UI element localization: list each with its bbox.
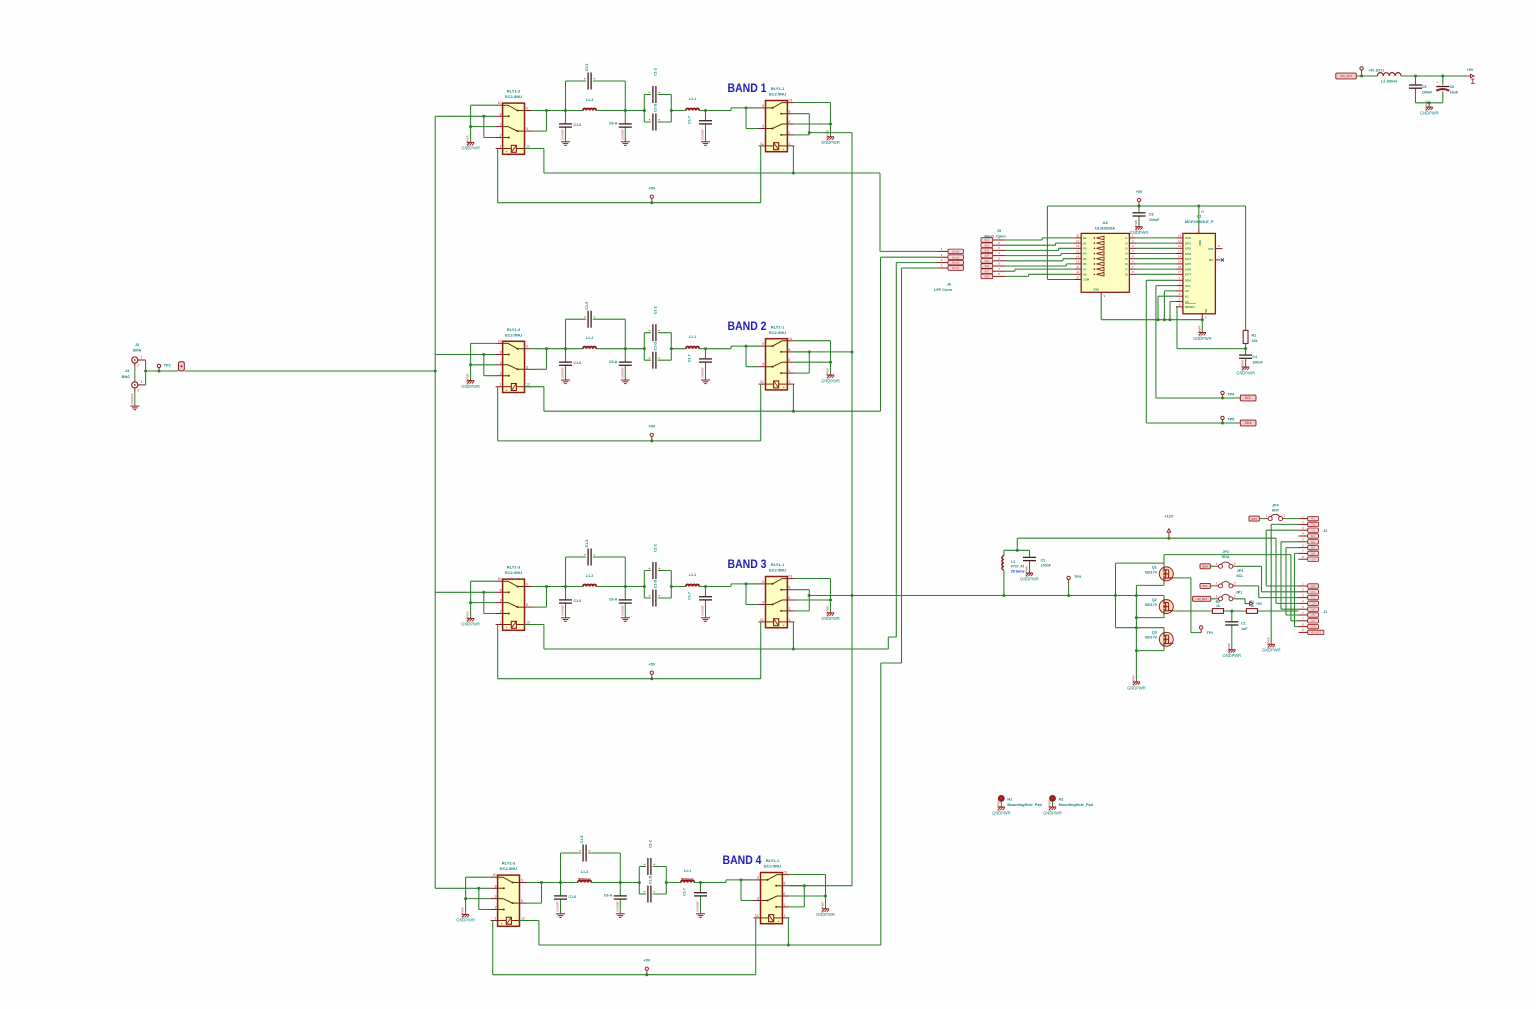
wire: input to relay pins 8/2 and 10/3 to GNDPWR [452,105,496,141]
svg-text:16: 16 [1076,244,1080,248]
ground GNDPWR (C4) [1236,360,1255,375]
svg-text:+5V_EXT: +5V_EXT [1340,74,1353,78]
ground GNDREF (C6-A) [621,129,630,146]
transistor Q1 BS170 [1159,566,1173,581]
test point TP3 [1067,576,1070,583]
band row 3 (RLY3-3 / RLY3-1 filter) [452,540,870,681]
svg-text:GND: GND [1310,626,1316,629]
wire: +5V top rail [1047,206,1245,330]
connector J2 [1299,518,1308,520]
svg-text:Q3: Q3 [1152,631,1157,635]
svg-text:GND: GND [1310,608,1316,611]
svg-text:C2: C2 [1041,558,1046,562]
label SDA (JP2 input) [1200,564,1210,569]
svg-text:C5: C5 [1422,85,1427,89]
power +5V (logic) [1137,198,1140,206]
ground GNDPWR (right relay) [821,130,840,145]
svg-text:SCL: SCL [1202,584,1208,588]
label +5V_EXT (JP1 input) [1193,596,1211,601]
svg-text:H1: H1 [1007,797,1012,801]
svg-text:GP6: GP6 [1185,267,1191,271]
capacitor C2 100nF [1017,550,1029,571]
svg-text:SMA: SMA [133,348,142,353]
svg-text:O6: O6 [1083,262,1087,266]
svg-text:+12V: +12V [1164,515,1173,519]
mounting hole H1 [998,795,1005,802]
svg-text:O2: O2 [1083,241,1087,245]
svg-text:+5V_EXT: +5V_EXT [1311,632,1322,635]
svg-text:+5V: +5V [1311,614,1316,617]
svg-text:GP2: GP2 [1185,247,1191,251]
capacitor C5 100nF [1415,76,1417,103]
svg-text:ANT: ANT [1251,517,1257,521]
svg-text:+5V: +5V [1256,602,1263,606]
svg-text:14: 14 [1178,255,1182,259]
svg-text:+5V: +5V [1467,68,1474,72]
svg-text:INT: INT [1209,247,1214,251]
wire: SCL net to label [1156,286,1240,398]
svg-text:+5V: +5V [648,187,655,191]
wire: band output bus [851,133,853,886]
connector J1 [1299,585,1308,587]
svg-text:R1: R1 [1252,333,1257,337]
svg-text:SCL: SCL [1185,284,1191,288]
svg-text:GP1: GP1 [1185,241,1191,245]
svg-text:SDA: SDA [1245,421,1253,425]
svg-text:O8: O8 [1083,273,1087,277]
svg-text:VDD: VDD [1198,240,1202,246]
svg-text:Bd5: Bd5 [985,260,990,263]
svg-text:TP3: TP3 [1074,575,1081,579]
svg-text:BAND 2: BAND 2 [728,319,767,333]
svg-text:U4: U4 [1102,220,1108,225]
svg-text:O3: O3 [1083,247,1087,251]
power +5V (band coil supply) [650,195,653,203]
jumper JP2 SDA [1215,562,1236,568]
svg-text:J2: J2 [1323,529,1327,533]
svg-text:TP1: TP1 [1206,631,1213,635]
wire: BNC ground to GNDREF [134,388,136,392]
capacitor C4 100nF [1239,355,1252,358]
wire: ULN COM to +5V rail [1047,206,1074,280]
ground GNDPWR (C1) [1222,643,1241,658]
svg-text:A0: A0 [1185,300,1189,304]
wire: relay throws 9/5 tie to filter input [532,111,566,132]
ground GNDPWR (H2) [1043,800,1062,815]
svg-text:BAND 3: BAND 3 [728,557,767,571]
svg-text:TP2: TP2 [164,364,171,368]
inductor L1-1 [686,108,699,110]
ground GNDPWR (left relay) [461,135,480,150]
svg-text:C4: C4 [1252,355,1257,359]
svg-text:Bd2: Bd2 [1311,541,1316,544]
svg-text:ANT: ANT [1311,518,1316,521]
svg-text:+12V: +12V [1310,558,1316,561]
wire: J5 to ULN2803 outputs (staircase) [1005,238,1074,277]
svg-text:VSS: VSS [1204,309,1208,315]
ground GNDREF (C1-7) [701,129,710,146]
wire: Q1 gate to TP1 [1173,578,1201,633]
label SCL [1240,395,1256,401]
svg-text:A2: A2 [1185,289,1189,293]
svg-text:JP2: JP2 [1222,550,1228,554]
svg-text:Bd3: Bd3 [1311,547,1316,550]
svg-text:O5: O5 [1083,257,1087,261]
svg-text:BAND 4: BAND 4 [723,853,762,867]
band row 4 (RLY4-3 / RLY4-1 filter) [447,836,865,977]
test point TP1 [1199,626,1202,633]
wire: input net to bus [146,360,436,385]
label SCL (JP3 input) [1200,583,1210,588]
svg-text:RESET: RESET [1185,305,1195,309]
svg-text:100nF: 100nF [1041,563,1052,567]
svg-text:Bd6: Bd6 [985,265,990,268]
connector J4 BNC [132,382,138,388]
svg-text:+5V_EXT1: +5V_EXT1 [1369,69,1385,73]
svg-text:GP7: GP7 [1185,273,1191,277]
svg-text:GND: GND [1093,288,1099,292]
svg-text:GND: GND [1310,524,1316,527]
svg-text:15: 15 [1178,260,1182,264]
svg-text:C6-A: C6-A [609,122,618,126]
svg-text:18: 18 [1201,209,1205,213]
mounting hole H2 [1049,795,1056,802]
net tie / ferrite bead (input) [179,362,185,371]
wire: MCP VSS to ground [1201,319,1203,331]
wire: FET switch network [1116,555,1165,681]
wire: bus stubs into band rows [435,116,452,888]
wire: C5/C6 ground rail [1416,103,1443,106]
wire: ULN outputs to MCP GP pins [1136,238,1176,274]
relay RLY1-1 (right, EC2-5NU, mirrored) [759,99,795,152]
transistor Q3 BS170 [1159,632,1173,647]
svg-text:ANT: ANT [1311,620,1316,623]
svg-text:Bd1: Bd1 [1311,535,1316,538]
capacitor C1 1nF [1231,611,1233,648]
resistor R1 10k [1243,330,1248,343]
svg-text:EC2-5NU: EC2-5NU [505,94,522,99]
svg-text:ANT: ANT [1272,509,1280,513]
ground GNDPWR (FET source) [1127,675,1146,690]
svg-text:GP0: GP0 [1185,236,1191,240]
svg-text:C6: C6 [1450,85,1455,89]
wire: SDA net to label [1146,280,1240,423]
svg-text:L1-2: L1-2 [586,98,593,102]
svg-text:10uF: 10uF [1450,90,1459,94]
ground GNDPWR (power input) [1420,100,1439,115]
wire: gate resistor row [1173,610,1298,612]
svg-text:Bd4: Bd4 [985,255,990,258]
wire: relay coil rail A [525,146,871,173]
IC U4 ULN2803A [1081,233,1129,292]
svg-text:12: 12 [1178,244,1182,248]
wire: ULN GND to ground line [1101,298,1202,320]
ground GNDREF (input) [130,393,139,410]
band row 2 (RLY2-3 / RLY2-1 filter) [452,302,870,443]
jumper JP1 [1215,594,1236,600]
label +5V_EXT (power input) [1336,73,1357,79]
svg-text:JP1: JP1 [1236,591,1242,595]
svg-text:TP5: TP5 [1227,418,1234,422]
transistor Q2 BS170 [1159,599,1173,614]
svg-text:RLY1-1: RLY1-1 [771,86,785,91]
svg-text:12: 12 [1076,265,1080,269]
inductor L1-2 [566,110,626,112]
test point TP5 [1221,416,1224,423]
svg-text:500kHz: 500kHz [578,878,591,882]
svg-text:10k: 10k [1252,339,1258,343]
svg-text:GND: GND [1310,585,1316,588]
capacitor C1-6 (shunt) [565,111,567,141]
svg-text:SDA: SDA [1222,555,1230,559]
power +12V [1167,529,1171,539]
capacitor C1-5 (top bypass) [566,81,626,111]
svg-text:GP3: GP3 [1185,252,1191,256]
wire: band1 control to J6 [870,173,937,251]
svg-text:RLY1-3: RLY1-3 [507,89,521,94]
svg-text:SCL: SCL [1311,597,1316,600]
capacitor C1-7 (shunt) [705,111,707,141]
wire: A2/A1/A0 to ground line [1158,291,1176,320]
svg-text:BS170: BS170 [1145,636,1157,640]
ground GNDPWR (MCP VSS) [1193,325,1212,340]
capacitor C1-2 / C1-D parallel pair [625,95,686,123]
wire: band2 control to J6 [870,257,937,411]
svg-text:O1: O1 [1083,236,1087,240]
ground GNDREF (C1-6) [561,129,570,146]
svg-text:16: 16 [1178,265,1182,269]
connector J5 Band_Conn [981,238,993,243]
svg-text:Bd1: Bd1 [985,239,990,242]
svg-text:JP3: JP3 [1237,569,1243,573]
svg-text:TP4: TP4 [1227,393,1235,397]
ground GNDPWR (harness) [1262,637,1281,652]
svg-text:Bd7: Bd7 [985,270,990,273]
svg-text:JP4: JP4 [1272,503,1278,507]
label SDA [1240,420,1256,426]
wire: band4 output row [789,885,852,887]
svg-text:Band2: Band2 [952,262,960,265]
svg-text:SDA: SDA [1311,591,1316,594]
svg-text:C1-5: C1-5 [585,64,589,72]
ground GNDPWR (H1) [992,800,1011,815]
svg-text:O7: O7 [1083,267,1087,271]
svg-text:Band3: Band3 [952,256,960,259]
svg-text:A1: A1 [1185,295,1189,299]
svg-text:+: + [1436,80,1438,84]
wire: band3 control to J6 [870,263,937,649]
svg-text:10: 10 [1178,234,1182,238]
wire: Q1 drain rail [1164,554,1291,556]
svg-text:11: 11 [1076,270,1079,274]
svg-text:18: 18 [1076,234,1080,238]
svg-text:MountingHole_Pad: MountingHole_Pad [1007,803,1042,807]
wire: +12V rail [1017,538,1276,550]
wire: main input bus (vertical) [434,116,436,888]
connector J6 LPF Conn [937,250,948,252]
svg-text:+12V: +12V [1310,603,1316,606]
power +5V (output arrow) [1466,75,1471,77]
svg-text:Q1: Q1 [1152,565,1157,569]
jumper JP4 ANT [1265,514,1286,520]
svg-text:1nF: 1nF [1241,627,1248,631]
svg-text:GP4: GP4 [1185,257,1191,261]
wire: relay coil +5V rail B [498,146,761,203]
svg-text:J1: J1 [1323,610,1327,614]
svg-text:EC2-5NU: EC2-5NU [769,92,786,97]
svg-text:1: 1 [141,355,143,359]
svg-text:H2: H2 [1059,797,1064,801]
svg-text:C1-7: C1-7 [688,116,692,124]
wire: L2 to +5V [1401,75,1466,77]
jumper JP3 SCL [1215,582,1236,588]
svg-text:13: 13 [1178,249,1182,253]
test point TP4 [1221,391,1224,398]
svg-text:MountingHole_Pad: MountingHole_Pad [1059,803,1094,807]
svg-text:COM: COM [1083,278,1089,282]
svg-text:L1-1: L1-1 [689,97,696,101]
label ANT (JP4 input) [1249,516,1259,521]
svg-text:Band1: Band1 [952,267,960,270]
capacitor C6 10uF (polarized) [1442,76,1444,103]
svg-text:1: 1 [141,380,143,384]
svg-text:C1: C1 [1241,622,1246,626]
svg-text:MCP23008-E_P: MCP23008-E_P [1185,219,1214,224]
test point +5V_EXT1 [1360,67,1363,74]
svg-text:C1-2: C1-2 [653,68,657,76]
svg-text:O4: O4 [1083,252,1087,256]
svg-text:+5V_EXT: +5V_EXT [1196,598,1207,601]
wire: band3 output row (to RF switch section) [809,595,1164,597]
svg-text:Bd3: Bd3 [985,250,990,253]
wire: band2 output row [794,351,852,353]
svg-text:L2 100nH: L2 100nH [1381,79,1397,83]
svg-text:11: 11 [1178,239,1181,243]
svg-text:FT37_43: FT37_43 [1011,565,1024,569]
svg-text:SCL: SCL [1245,396,1252,400]
svg-text:14: 14 [1076,255,1080,259]
IC U1 MCP23008-E_P [1183,233,1216,313]
svg-text:13: 13 [1076,260,1080,264]
svg-text:500kHz: 500kHz [681,878,694,882]
resistor R3 1k [1246,609,1257,614]
svg-text:17: 17 [1076,239,1080,243]
power +5V (from JP1) [1245,603,1250,605]
svg-text:20 turns: 20 turns [1011,569,1025,573]
svg-text:Band4: Band4 [952,251,960,254]
svg-text:BNC: BNC [122,374,131,379]
svg-text:LPF Conn: LPF Conn [934,288,953,292]
wire: SMA ground pin to BNC [134,363,136,367]
svg-text:+5V: +5V [1311,529,1316,532]
svg-text:C1-6: C1-6 [574,123,582,127]
svg-text:BS170: BS170 [1145,570,1157,574]
svg-text:ULN2803A: ULN2803A [1095,225,1115,230]
svg-text:SDA: SDA [1185,279,1192,283]
wire: filter output to relay 9/5 [746,108,759,129]
relay RLY1-3 (left, EC2-5NU) [496,101,532,154]
ground GNDPWR (C3) [1130,220,1149,235]
svg-text:SCL: SCL [1236,574,1244,578]
svg-text:C1-D: C1-D [653,103,657,112]
svg-text:Band_Conn: Band_Conn [984,234,1006,238]
svg-text:BS170: BS170 [1145,603,1157,607]
svg-text:100nF: 100nF [1252,360,1263,364]
svg-text:L1: L1 [1011,560,1015,564]
svg-text:J6: J6 [947,283,951,287]
inductor L2 100nH [1377,73,1401,76]
wire: harness weave to J1/J2 [1259,524,1299,642]
svg-text:GP5: GP5 [1185,262,1191,266]
inductor L1 FT37_43 (RF choke) [1004,550,1017,595]
resistor R2 1k [1212,609,1223,614]
svg-text:J4: J4 [125,368,130,373]
wire: band4 control to J6 [865,268,937,945]
svg-text:Bd4: Bd4 [1311,553,1316,556]
capacitor C3 100nF [1138,206,1140,225]
wire: +5V_EXT to L2 [1356,75,1377,77]
svg-text:SDA: SDA [1202,565,1208,569]
svg-text:100nF: 100nF [1422,90,1433,94]
test point TP2 [157,364,160,371]
svg-text:Q2: Q2 [1152,598,1157,602]
wire: MCP VDD to +5V rail [1198,206,1200,228]
svg-text:Bd2: Bd2 [985,244,990,247]
svg-text:J3: J3 [135,342,140,347]
svg-text:Bd8: Bd8 [985,276,990,279]
svg-text:C3: C3 [1149,213,1154,217]
svg-text:2: 2 [137,364,139,368]
ground GNDPWR (C2) [1020,566,1039,581]
svg-text:1k: 1k [1216,604,1220,608]
svg-text:100nF: 100nF [1149,218,1160,222]
connector J3 SMA [132,357,138,363]
capacitor C6-A (shunt) [624,111,626,141]
svg-text:J5: J5 [997,229,1001,233]
svg-text:15: 15 [1076,249,1080,253]
svg-text:10: 10 [1076,275,1080,279]
wire: band1 output row [809,132,852,134]
wire: RESET pull-up via R1 [1177,307,1246,349]
svg-text:+5V: +5V [1136,190,1143,194]
svg-text:2: 2 [137,389,139,393]
wire: right relay contacts 10/3 to ground, 8/2 tie [794,103,830,136]
svg-text:17: 17 [1178,270,1182,274]
svg-text:BAND 1: BAND 1 [728,81,767,95]
svg-text:U1: U1 [1197,214,1203,219]
